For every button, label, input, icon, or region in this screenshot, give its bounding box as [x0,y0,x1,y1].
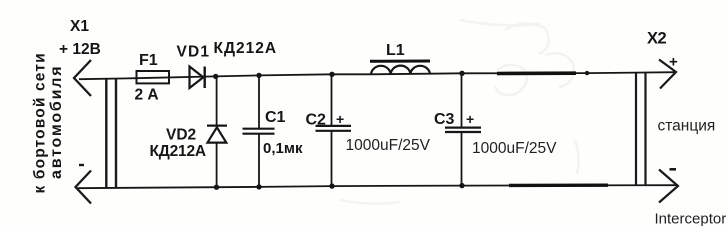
wire: VD2 branch upper [216,76,218,126]
wire: C3 lower lead [461,132,463,186]
svg-text:станция: станция [658,118,716,135]
capacitor C3 (polarized) [445,128,481,132]
svg-text:+: + [669,54,678,71]
wire: C3 upper lead [461,73,463,127]
capacitor C2 (polarized) [316,126,352,131]
node: C2 top junction [329,72,334,77]
wire: bottom rail [76,185,678,188]
diode VD1 [190,67,205,89]
svg-text:C1: C1 [265,109,286,126]
wire: top rail [79,72,676,79]
svg-text:1000uF/25V: 1000uF/25V [346,137,431,154]
fuse F1 [137,71,170,83]
svg-text:+: + [336,111,344,127]
terminal arrow X2 minus [659,170,678,203]
diode VD2 [207,126,227,143]
svg-text:+: + [466,111,474,127]
terminal arrow X1 minus [76,171,92,204]
label X1 minus sign [79,164,84,166]
svg-text:VD1: VD1 [177,44,211,61]
wire: C1 upper lead [258,75,260,128]
node: small junction blob on top rail [585,71,589,75]
terminal arrow X1 plus [74,60,91,96]
node: C2 bottom junction [329,183,334,188]
inductor L1 core bar [370,60,430,63]
inductor L1 [371,66,430,75]
svg-text:Interceptor: Interceptor [655,211,727,227]
svg-text:F1: F1 [139,52,158,69]
connector X2 pin lines [636,73,646,186]
connector X1 pin lines [106,79,116,188]
svg-text:КД212А: КД212А [150,143,206,160]
node: C3 top junction [459,71,464,76]
svg-text:КД212А: КД212А [214,40,278,57]
svg-text:C3: C3 [434,111,455,128]
svg-text:VD2: VD2 [166,127,196,144]
svg-text:X2: X2 [647,30,667,48]
svg-text:C2: C2 [306,112,327,129]
svg-text:к бортовой сети: к бортовой сети [32,52,49,193]
capacitor C1 [243,129,275,134]
node: VD2 anode junction (bottom) [214,185,219,190]
svg-text:+ 12В: + 12В [59,41,101,58]
node: C3 bottom junction [459,183,464,188]
wire: C2 lower lead [331,131,333,186]
svg-text:автомобиля: автомобиля [48,65,65,179]
node: C1 top junction [256,73,261,78]
label X2 minus sign [670,168,677,171]
node: C1 bottom junction [256,184,261,189]
ghost scan smudges (decorative) [340,20,579,204]
svg-text:X1: X1 [70,18,89,35]
svg-text:2 А: 2 А [135,87,159,104]
wire: C2 upper lead [331,74,333,125]
wire: top rail heavy overdrawn segment [497,71,576,75]
svg-text:L1: L1 [386,42,405,59]
wire: VD2 branch lower [216,143,218,188]
svg-text:0,1мк: 0,1мк [263,140,303,157]
svg-text:1000uF/25V: 1000uF/25V [472,140,557,157]
wire: bottom rail heavy overdrawn segment [509,183,608,187]
wire: C1 lower lead [258,134,260,187]
terminal arrow X2 plus [659,60,676,89]
node: VD1 cathode / VD2 branch junction (top) [213,74,218,79]
